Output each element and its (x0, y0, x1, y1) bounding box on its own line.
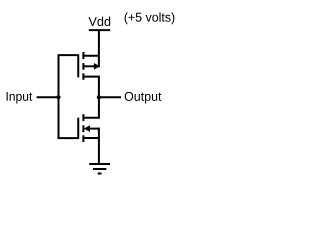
transistor Q1 (PMOS) source stub (82, 55, 99, 57)
transistor Q2 (NMOS) channel segment top (82, 114, 84, 121)
ground symbol bar 3 (98, 173, 102, 175)
ground symbol bar 2 (93, 168, 106, 170)
transistor Q2 (NMOS) bulk lead with arrow (84, 125, 90, 132)
transistor Q1 (PMOS) channel segment top (82, 52, 84, 59)
transistor Q2 (NMOS) channel segment middle (82, 125, 84, 132)
wire Output lead (99, 96, 121, 98)
label Input (7, 92, 33, 103)
transistor Q2 (NMOS) source stub (82, 137, 99, 139)
transistor Q1 (PMOS) gate bar (77, 54, 79, 77)
wire Vdd rail to Q1 source stub (98, 30, 100, 67)
net label Vdd (88, 17, 110, 26)
wire Q2 source to ground (98, 137, 100, 164)
transistor Q1 (PMOS) bulk lead with arrow (82, 65, 95, 67)
Vdd power rail symbol (89, 29, 110, 31)
wire input trunk with branches to Q1 and Q2 gates (59, 55, 79, 138)
junction input node (56, 95, 60, 99)
transistor Q2 (NMOS) drain stub (82, 117, 99, 119)
transistor Q1 (PMOS) channel segment middle (82, 63, 84, 70)
label Output (125, 92, 162, 104)
value label (+5 volts) (125, 12, 175, 24)
ground symbol bar 1 (89, 163, 110, 165)
transistor Q1 (PMOS) channel segment bottom (82, 73, 84, 80)
junction output node (97, 95, 101, 99)
wire Q1 drain to output node to Q2 drain (98, 76, 100, 119)
wire Input lead (37, 96, 59, 98)
transistor Q1 (PMOS) drain stub (82, 76, 99, 78)
transistor Q2 (NMOS) channel segment bottom (82, 135, 84, 142)
transistor Q2 (NMOS) gate bar (77, 118, 79, 139)
